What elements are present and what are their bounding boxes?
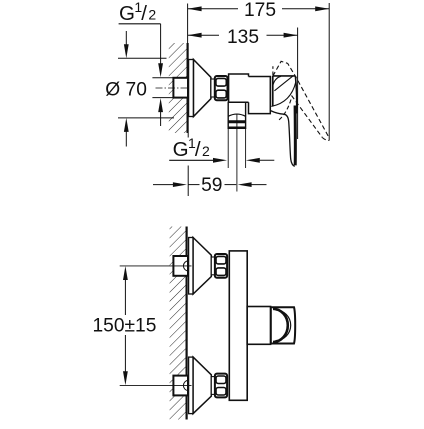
supply fitting lower bottom: [173, 376, 188, 396]
wall extension line above (for 175/135 dims): [187, 4, 189, 44]
mixer body lower: [229, 251, 247, 400]
escutcheon cone lower top: [193, 238, 211, 295]
handle block lower: [247, 307, 270, 345]
svg-text:/: /: [195, 138, 201, 161]
washer upper: [211, 79, 215, 97]
svg-text:2: 2: [148, 7, 156, 23]
G1/2 middle dimension (outlet width): [169, 158, 274, 163]
svg-text:Ø 70: Ø 70: [105, 79, 147, 100]
lever handle dashed (open position) upper: [273, 61, 329, 140]
handle cap lower: [271, 307, 295, 343]
mixer body section 2 upper (cartridge housing): [249, 77, 271, 114]
wall hatch lower: [170, 227, 186, 420]
mixer body section 1 upper: [229, 74, 249, 102]
center line supply upper: [156, 87, 194, 89]
escutcheon plate upper: [189, 60, 194, 117]
outlet edge extension lines: [228, 128, 245, 168]
svg-text:59: 59: [201, 175, 222, 196]
wall line lower: [186, 227, 188, 420]
escutcheon cone lower bottom: [193, 357, 211, 414]
center line supply lower bottom / 150 ext bottom: [120, 384, 192, 386]
wall hatch upper: [169, 43, 187, 133]
escutcheon cone upper: [194, 60, 211, 117]
wall line upper: [187, 43, 189, 133]
supply fitting upper (behind wall): [173, 78, 188, 98]
outlet center line: [236, 114, 238, 192]
hex nut upper: [215, 76, 228, 100]
outlet stub (G1/2 shower connection) upper: [228, 102, 245, 128]
svg-text:G: G: [173, 138, 189, 161]
label G1/2 top: [119, 0, 161, 25]
washer lower top: [211, 257, 215, 275]
dimension O70: [105, 31, 174, 147]
svg-text:135: 135: [227, 27, 259, 48]
dimension 150±15: [93, 266, 157, 385]
svg-text:2: 2: [202, 143, 210, 159]
extension line 135 right: [297, 28, 299, 140]
hex nut lower top: [215, 254, 227, 278]
escutcheon plate lower top: [189, 238, 194, 295]
washer lower bottom: [211, 377, 215, 395]
extension line 175 right: [328, 3, 330, 141]
handle crescent lower: [273, 309, 291, 342]
hex nut lower bottom: [215, 374, 227, 398]
G1/2 top leader+arrows: [152, 24, 173, 126]
svg-text:150±15: 150±15: [93, 316, 157, 337]
escutcheon plate lower bottom: [189, 357, 194, 414]
svg-text:175: 175: [244, 0, 276, 21]
supply fitting lower top: [173, 256, 188, 276]
dimension 175: [188, 0, 330, 21]
label G1/2 middle: [173, 135, 210, 161]
svg-text:G: G: [119, 2, 135, 25]
center line supply lower top / 150 ext top: [120, 265, 192, 267]
dimension 135: [188, 27, 298, 48]
dimension 59: [153, 175, 267, 196]
svg-text:/: /: [141, 2, 147, 25]
lever handle solid (closed position) upper: [270, 76, 296, 166]
wall extension line below (for 59 dim): [187, 133, 189, 196]
